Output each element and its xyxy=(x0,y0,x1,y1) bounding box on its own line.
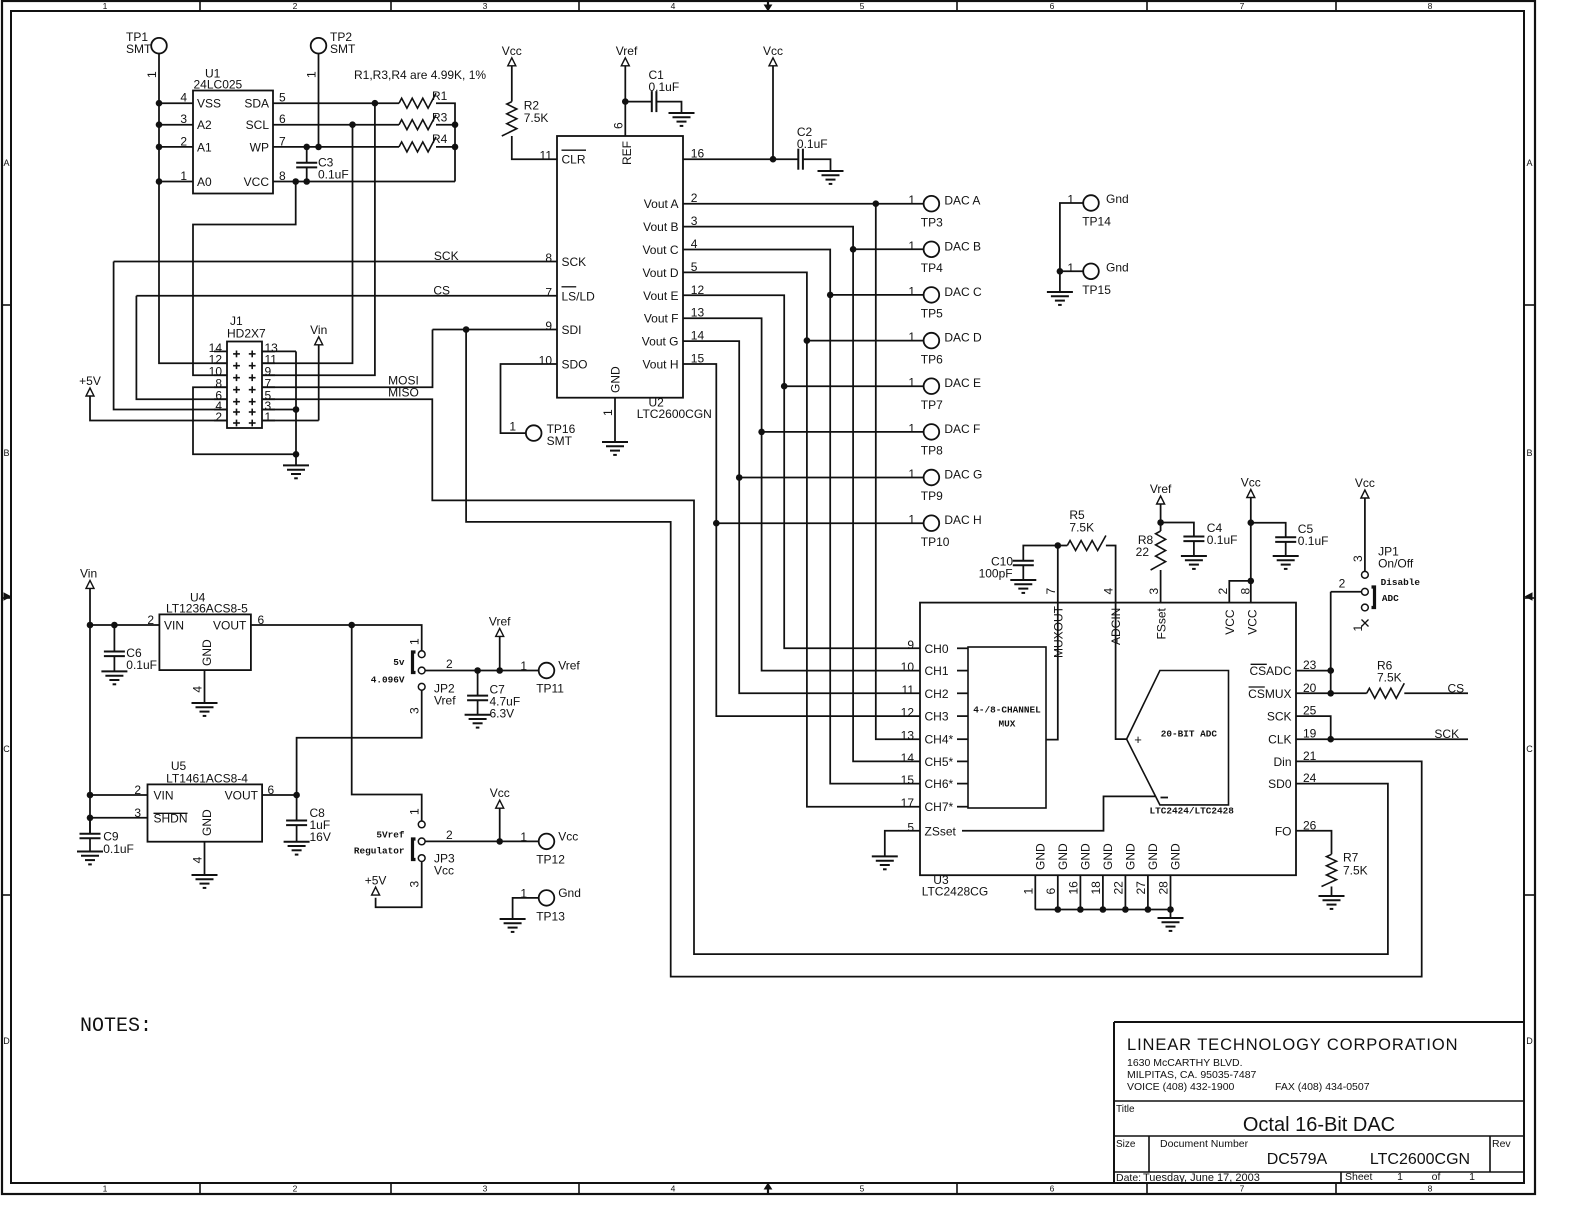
svg-text:1630 McCARTHY BLVD.: 1630 McCARTHY BLVD. xyxy=(1127,1057,1243,1069)
svg-text:TP8: TP8 xyxy=(921,444,943,458)
svg-text:5: 5 xyxy=(860,1,865,11)
svg-text:CS: CS xyxy=(1448,681,1465,695)
svg-text:1: 1 xyxy=(520,886,527,900)
svg-text:+: + xyxy=(1134,732,1142,747)
svg-text:A: A xyxy=(1526,158,1532,168)
svg-text:R1: R1 xyxy=(432,89,448,103)
svg-text:SMT: SMT xyxy=(126,42,152,56)
svg-text:TP11: TP11 xyxy=(536,682,564,696)
svg-text:8: 8 xyxy=(1428,1,1433,11)
svg-text:16: 16 xyxy=(1066,881,1080,895)
svg-text:4: 4 xyxy=(671,1,676,11)
svg-text:Vref: Vref xyxy=(489,615,511,629)
svg-text:R1,R3,R4 are 4.99K, 1%: R1,R3,R4 are 4.99K, 1% xyxy=(354,68,486,82)
svg-text:Gnd: Gnd xyxy=(1106,192,1129,206)
svg-text:2: 2 xyxy=(134,783,141,797)
svg-text:GND: GND xyxy=(1056,843,1070,870)
svg-text:SD0: SD0 xyxy=(1268,777,1292,791)
svg-text:1: 1 xyxy=(908,467,915,481)
svg-text:MUX: MUX xyxy=(999,719,1016,730)
svg-text:2: 2 xyxy=(180,134,187,148)
svg-text:GND: GND xyxy=(1169,843,1183,870)
svg-text:22: 22 xyxy=(1136,545,1150,559)
svg-text:Vcc: Vcc xyxy=(490,786,510,800)
svg-text:A0: A0 xyxy=(197,175,212,189)
svg-text:VIN: VIN xyxy=(154,789,174,803)
svg-text:VIN: VIN xyxy=(164,619,184,633)
svg-text:3: 3 xyxy=(134,806,141,820)
svg-text:SCK: SCK xyxy=(1434,727,1459,741)
svg-text:Octal 16-Bit DAC: Octal 16-Bit DAC xyxy=(1243,1114,1395,1136)
svg-text:CH7*: CH7* xyxy=(925,800,954,814)
svg-text:DAC B: DAC B xyxy=(944,239,981,253)
svg-text:TP9: TP9 xyxy=(921,489,943,503)
svg-text:6: 6 xyxy=(258,613,265,627)
svg-text:B: B xyxy=(3,448,9,458)
svg-text:GND: GND xyxy=(1124,843,1138,870)
svg-text:5Vref: 5Vref xyxy=(376,830,405,841)
svg-text:CLR: CLR xyxy=(562,153,586,167)
svg-text:18: 18 xyxy=(1089,881,1103,895)
svg-text:LS/LD: LS/LD xyxy=(562,289,596,303)
svg-text:C: C xyxy=(3,744,10,754)
svg-text:Vout A: Vout A xyxy=(644,197,679,211)
svg-text:DAC C: DAC C xyxy=(944,285,982,299)
svg-text:TP4: TP4 xyxy=(921,261,943,275)
svg-text:7: 7 xyxy=(1240,1,1245,11)
svg-text:CH5*: CH5* xyxy=(925,755,954,769)
svg-text:3: 3 xyxy=(483,1,488,11)
svg-text:1: 1 xyxy=(601,409,615,416)
svg-text:VCC: VCC xyxy=(244,175,270,189)
svg-text:CLK: CLK xyxy=(1268,733,1291,747)
svg-text:Size: Size xyxy=(1116,1139,1136,1150)
svg-text:1: 1 xyxy=(265,410,272,424)
svg-text:4-/8-CHANNEL: 4-/8-CHANNEL xyxy=(973,705,1041,716)
svg-text:8: 8 xyxy=(1428,1184,1433,1194)
svg-text:10: 10 xyxy=(901,660,915,674)
svg-text:10: 10 xyxy=(539,354,553,368)
svg-text:Vcc: Vcc xyxy=(434,864,454,878)
svg-text:2: 2 xyxy=(446,657,453,671)
svg-text:LTC2428CG: LTC2428CG xyxy=(922,885,988,899)
svg-text:Vref: Vref xyxy=(434,694,456,708)
svg-text:CH1: CH1 xyxy=(925,664,949,678)
svg-text:3: 3 xyxy=(1147,588,1161,595)
svg-text:4: 4 xyxy=(191,856,205,863)
svg-text:ADC: ADC xyxy=(1382,593,1399,604)
svg-text:14: 14 xyxy=(901,751,915,765)
svg-text:Vcc: Vcc xyxy=(558,829,578,843)
svg-text:1: 1 xyxy=(408,638,422,645)
svg-text:Vcc: Vcc xyxy=(1355,476,1375,490)
svg-text:6: 6 xyxy=(1050,1,1055,11)
svg-text:TP7: TP7 xyxy=(921,398,943,412)
svg-text:1: 1 xyxy=(408,808,422,815)
svg-text:+5V: +5V xyxy=(365,873,387,887)
svg-text:1: 1 xyxy=(908,193,915,207)
svg-text:DAC H: DAC H xyxy=(944,513,981,527)
svg-text:12: 12 xyxy=(901,706,915,720)
svg-text:GND: GND xyxy=(1101,843,1115,870)
svg-text:TP13: TP13 xyxy=(536,910,565,924)
svg-text:TP3: TP3 xyxy=(921,215,943,229)
svg-text:1: 1 xyxy=(520,659,527,673)
svg-text:DC579A: DC579A xyxy=(1267,1151,1328,1168)
svg-text:1: 1 xyxy=(908,330,915,344)
svg-text:Vout B: Vout B xyxy=(643,220,678,234)
svg-text:MISO: MISO xyxy=(388,386,419,400)
svg-text:1: 1 xyxy=(180,169,187,183)
svg-text:Gnd: Gnd xyxy=(1106,260,1129,274)
svg-text:Vref: Vref xyxy=(616,44,638,58)
svg-text:Vout C: Vout C xyxy=(642,243,678,257)
svg-text:16V: 16V xyxy=(310,830,331,844)
svg-text:24LC025: 24LC025 xyxy=(194,78,243,92)
svg-text:DAC D: DAC D xyxy=(944,331,982,345)
svg-text:DAC F: DAC F xyxy=(944,422,980,436)
svg-text:6: 6 xyxy=(268,783,275,797)
svg-text:6: 6 xyxy=(1044,888,1058,895)
svg-text:7.5K: 7.5K xyxy=(1069,521,1094,535)
svg-text:TP6: TP6 xyxy=(921,352,943,366)
svg-text:4: 4 xyxy=(180,91,187,105)
svg-text:1: 1 xyxy=(908,513,915,527)
svg-text:4: 4 xyxy=(191,686,205,693)
svg-text:1: 1 xyxy=(1469,1171,1475,1183)
svg-text:TP15: TP15 xyxy=(1082,283,1111,297)
svg-text:27: 27 xyxy=(1134,881,1148,895)
svg-text:TP5: TP5 xyxy=(921,307,943,321)
svg-text:LT1461ACS8-4: LT1461ACS8-4 xyxy=(166,772,248,786)
svg-text:GND: GND xyxy=(200,639,214,666)
svg-text:6: 6 xyxy=(611,122,625,129)
svg-text:ADCIN: ADCIN xyxy=(1109,608,1123,645)
svg-text:of: of xyxy=(1432,1171,1441,1183)
svg-text:0.1uF: 0.1uF xyxy=(318,168,349,182)
svg-text:0.1uF: 0.1uF xyxy=(103,842,134,856)
svg-text:9: 9 xyxy=(545,319,552,333)
svg-text:20-BIT ADC: 20-BIT ADC xyxy=(1161,729,1218,740)
svg-text:TP10: TP10 xyxy=(921,535,950,549)
svg-text:Vout G: Vout G xyxy=(642,335,679,349)
svg-text:Vout H: Vout H xyxy=(642,358,678,372)
svg-text:0.1uF: 0.1uF xyxy=(649,80,680,94)
svg-text:2: 2 xyxy=(446,828,453,842)
svg-text:9: 9 xyxy=(907,638,914,652)
svg-text:11: 11 xyxy=(540,149,553,163)
svg-text:Document Number: Document Number xyxy=(1160,1138,1249,1150)
svg-text:SDI: SDI xyxy=(562,323,582,337)
svg-text:Title: Title xyxy=(1116,1104,1135,1115)
svg-text:LT1236ACS8-5: LT1236ACS8-5 xyxy=(166,602,248,616)
svg-text:1: 1 xyxy=(509,420,516,434)
svg-text:Vout E: Vout E xyxy=(643,289,678,303)
svg-text:LTC2600CGN: LTC2600CGN xyxy=(1370,1151,1470,1168)
svg-text:7.5K: 7.5K xyxy=(524,111,549,125)
svg-text:R7: R7 xyxy=(1343,851,1359,865)
svg-text:REF: REF xyxy=(620,141,634,165)
svg-text:3: 3 xyxy=(180,112,187,126)
svg-text:5: 5 xyxy=(860,1184,865,1194)
svg-text:FSset: FSset xyxy=(1155,607,1169,639)
svg-text:ZSset: ZSset xyxy=(925,824,957,838)
svg-text:1: 1 xyxy=(908,284,915,298)
svg-text:DAC G: DAC G xyxy=(944,468,982,482)
svg-text:7.5K: 7.5K xyxy=(1377,671,1402,685)
svg-text:3: 3 xyxy=(408,707,422,714)
svg-text:3: 3 xyxy=(483,1184,488,1194)
svg-text:3: 3 xyxy=(1351,555,1365,562)
svg-text:16: 16 xyxy=(691,147,705,161)
svg-text:1: 1 xyxy=(908,421,915,435)
svg-text:A2: A2 xyxy=(197,118,212,132)
svg-text:1: 1 xyxy=(145,71,159,78)
svg-text:On/Off: On/Off xyxy=(1378,557,1414,571)
svg-text:6.3V: 6.3V xyxy=(490,707,515,721)
svg-text:Vref: Vref xyxy=(558,659,580,673)
svg-text:2: 2 xyxy=(1339,577,1346,591)
svg-text:A: A xyxy=(3,158,9,168)
svg-text:FAX (408) 434-0507: FAX (408) 434-0507 xyxy=(1275,1081,1370,1093)
svg-text:5: 5 xyxy=(907,820,914,834)
svg-text:R4: R4 xyxy=(432,132,448,146)
svg-text:CH6*: CH6* xyxy=(925,777,954,791)
svg-text:0.1uF: 0.1uF xyxy=(1207,533,1238,547)
svg-text:1: 1 xyxy=(520,830,527,844)
svg-text:CH3: CH3 xyxy=(925,710,949,724)
svg-text:13: 13 xyxy=(901,729,915,743)
svg-text:Vref: Vref xyxy=(1150,482,1172,496)
svg-text:VOICE (408) 432-1900: VOICE (408) 432-1900 xyxy=(1127,1081,1235,1093)
svg-text:Vin: Vin xyxy=(80,567,97,581)
svg-text:MILPITAS, CA. 95035-7487: MILPITAS, CA. 95035-7487 xyxy=(1127,1069,1257,1081)
svg-text:A1: A1 xyxy=(197,140,212,154)
svg-text:Vin: Vin xyxy=(310,323,327,337)
svg-text:D: D xyxy=(1526,1036,1533,1046)
svg-text:SMT: SMT xyxy=(330,42,356,56)
svg-text:Tuesday, June 17, 2003: Tuesday, June 17, 2003 xyxy=(1143,1172,1260,1184)
svg-text:SMT: SMT xyxy=(547,434,573,448)
svg-text:CH4*: CH4* xyxy=(925,733,954,747)
svg-text:Regulator: Regulator xyxy=(354,846,405,857)
svg-text:Sheet: Sheet xyxy=(1345,1171,1373,1183)
svg-text:11: 11 xyxy=(902,683,915,697)
svg-text:C: C xyxy=(1526,744,1533,754)
svg-text:GND: GND xyxy=(1079,843,1093,870)
svg-text:28: 28 xyxy=(1157,881,1171,895)
svg-text:Vcc: Vcc xyxy=(1241,476,1261,490)
svg-text:VOUT: VOUT xyxy=(213,619,247,633)
svg-text:LTC2600CGN: LTC2600CGN xyxy=(637,407,712,421)
svg-text:CH2: CH2 xyxy=(925,687,949,701)
svg-text:2: 2 xyxy=(293,1184,298,1194)
svg-text:NOTES:: NOTES: xyxy=(80,1015,152,1038)
svg-text:15: 15 xyxy=(901,773,915,787)
svg-text:22: 22 xyxy=(1111,881,1125,895)
svg-text:1: 1 xyxy=(305,71,319,78)
svg-text:LINEAR TECHNOLOGY CORPORATION: LINEAR TECHNOLOGY CORPORATION xyxy=(1127,1036,1458,1054)
svg-text:100pF: 100pF xyxy=(979,567,1013,581)
svg-text:VSS: VSS xyxy=(197,97,221,111)
svg-text:1: 1 xyxy=(1067,193,1074,207)
svg-text:TP14: TP14 xyxy=(1082,215,1111,229)
svg-text:Gnd: Gnd xyxy=(558,886,581,900)
svg-text:VOUT: VOUT xyxy=(225,789,259,803)
svg-text:DAC A: DAC A xyxy=(944,194,980,208)
svg-text:24: 24 xyxy=(1303,771,1317,785)
svg-text:+5V: +5V xyxy=(79,374,101,388)
svg-text:SCL: SCL xyxy=(246,118,270,132)
svg-text:GND: GND xyxy=(1146,843,1160,870)
svg-text:2: 2 xyxy=(1216,588,1230,595)
svg-text:1: 1 xyxy=(1021,888,1035,895)
svg-text:HD2X7: HD2X7 xyxy=(227,327,266,341)
svg-text:2: 2 xyxy=(147,613,154,627)
svg-text:Rev: Rev xyxy=(1492,1138,1511,1150)
svg-text:1: 1 xyxy=(103,1184,108,1194)
svg-text:1: 1 xyxy=(908,239,915,253)
svg-text:7: 7 xyxy=(545,285,552,299)
svg-text:CSMUX: CSMUX xyxy=(1248,687,1291,701)
svg-text:MUXOUT: MUXOUT xyxy=(1051,605,1065,658)
svg-text:DAC E: DAC E xyxy=(944,376,981,390)
svg-text:SDA: SDA xyxy=(244,97,269,111)
svg-text:4.096V: 4.096V xyxy=(371,675,405,686)
svg-text:GND: GND xyxy=(1034,843,1048,870)
svg-text:Din: Din xyxy=(1273,755,1291,769)
svg-text:17: 17 xyxy=(901,796,915,810)
svg-text:LTC2424/LTC2428: LTC2424/LTC2428 xyxy=(1150,806,1235,817)
svg-text:WP: WP xyxy=(250,140,269,154)
svg-text:CS: CS xyxy=(433,283,450,297)
svg-text:R3: R3 xyxy=(432,111,448,125)
svg-text:SCK: SCK xyxy=(434,249,459,263)
svg-text:SCK: SCK xyxy=(1267,710,1292,724)
svg-text:Vcc: Vcc xyxy=(502,44,522,58)
svg-text:D: D xyxy=(3,1036,10,1046)
svg-text:0.1uF: 0.1uF xyxy=(126,658,157,672)
svg-text:Vcc: Vcc xyxy=(763,44,783,58)
svg-text:5v: 5v xyxy=(393,657,405,668)
svg-text:GND: GND xyxy=(609,366,623,393)
svg-text:6: 6 xyxy=(1050,1184,1055,1194)
svg-text:2: 2 xyxy=(293,1,298,11)
svg-text:4: 4 xyxy=(671,1184,676,1194)
svg-text:7.5K: 7.5K xyxy=(1343,864,1368,878)
svg-text:Vout D: Vout D xyxy=(642,266,678,280)
svg-text:VCC: VCC xyxy=(1223,609,1237,635)
svg-text:21: 21 xyxy=(1303,749,1317,763)
svg-text:2: 2 xyxy=(215,410,222,424)
svg-text:CH0: CH0 xyxy=(925,642,949,656)
svg-text:Date:: Date: xyxy=(1116,1172,1141,1184)
svg-text:SCK: SCK xyxy=(562,255,587,269)
svg-text:4: 4 xyxy=(1102,588,1116,595)
svg-text:7: 7 xyxy=(1044,588,1058,595)
svg-text:1: 1 xyxy=(1067,261,1074,275)
svg-text:1: 1 xyxy=(908,376,915,390)
svg-text:CSADC: CSADC xyxy=(1249,664,1291,678)
svg-text:8: 8 xyxy=(545,251,552,265)
svg-text:0.1uF: 0.1uF xyxy=(1298,534,1329,548)
svg-text:1: 1 xyxy=(103,1,108,11)
svg-text:B: B xyxy=(1526,448,1532,458)
svg-text:GND: GND xyxy=(200,809,214,836)
svg-text:Vout F: Vout F xyxy=(644,312,679,326)
svg-text:7: 7 xyxy=(1240,1184,1245,1194)
svg-text:0.1uF: 0.1uF xyxy=(797,137,828,151)
svg-text:1: 1 xyxy=(1397,1171,1403,1183)
svg-text:TP12: TP12 xyxy=(536,852,565,866)
svg-text:FO: FO xyxy=(1275,824,1292,838)
svg-text:Disable: Disable xyxy=(1381,577,1421,588)
svg-text:SDO: SDO xyxy=(562,358,588,372)
svg-text:VCC: VCC xyxy=(1245,609,1259,635)
svg-text:3: 3 xyxy=(408,881,422,888)
